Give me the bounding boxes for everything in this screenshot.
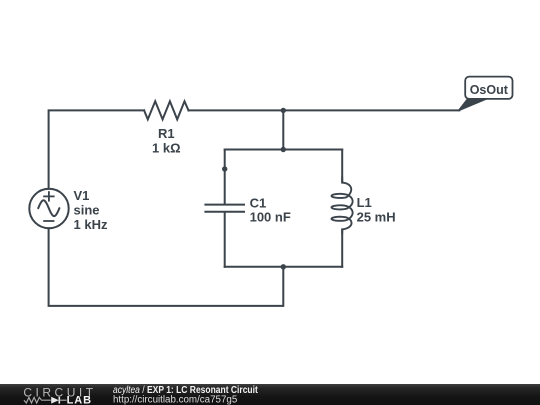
svg-text:L1: L1 — [357, 195, 372, 210]
svg-text:100 nF: 100 nF — [250, 210, 291, 225]
svg-text:R1: R1 — [158, 126, 175, 141]
svg-text:1 kΩ: 1 kΩ — [152, 140, 181, 155]
svg-text:OsOut: OsOut — [470, 83, 509, 97]
svg-text:LAB: LAB — [67, 394, 92, 405]
svg-text:25 mH: 25 mH — [357, 209, 396, 224]
svg-text:http://circuitlab.com/ca757g5: http://circuitlab.com/ca757g5 — [113, 395, 238, 405]
svg-text:C1: C1 — [250, 195, 267, 210]
svg-text:sine: sine — [74, 202, 100, 217]
svg-text:V1: V1 — [74, 188, 90, 203]
svg-text:1 kHz: 1 kHz — [74, 217, 108, 232]
